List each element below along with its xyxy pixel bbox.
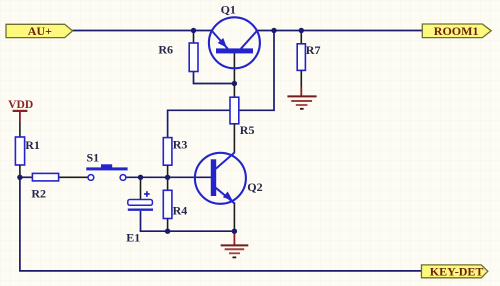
port KEY-DET — [422, 265, 488, 279]
svg-text:AU+: AU+ — [28, 24, 52, 38]
svg-text:S1: S1 — [87, 150, 100, 164]
resistor R6 — [189, 31, 198, 72]
ground below R7 — [287, 87, 316, 109]
svg-text:R3: R3 — [173, 137, 188, 151]
wire R6 bottom to Q1 base — [194, 72, 235, 84]
port ROOM1 — [422, 24, 491, 38]
wire AU+ to Q1 emitter — [73, 30, 213, 32]
svg-text:Q2: Q2 — [247, 180, 262, 194]
svg-text:R7: R7 — [306, 43, 321, 57]
ground below Q2 — [221, 231, 249, 257]
junction at R7 top — [299, 28, 304, 33]
junction at Q2 emitter/ground — [232, 229, 237, 234]
junction at R1/R2 — [17, 175, 22, 180]
port AU+ — [6, 24, 73, 38]
resistor R5 — [230, 97, 239, 152]
wire mid horizontal R1 to R2 — [20, 176, 33, 178]
svg-text:R1: R1 — [25, 138, 40, 152]
capacitor E1 — [128, 177, 153, 209]
junction at R3/R4 — [165, 175, 170, 180]
resistor R4 — [163, 177, 172, 231]
resistor R2 — [32, 173, 58, 181]
svg-text:Q1: Q1 — [221, 3, 236, 17]
junction at collector drop — [271, 28, 276, 33]
svg-text:ROOM1: ROOM1 — [434, 24, 479, 38]
junction at R6 top — [191, 28, 196, 33]
transistor Q1 (PNP) — [209, 17, 260, 68]
svg-text:E1: E1 — [126, 230, 140, 244]
resistor R3 — [163, 138, 172, 178]
svg-text:R2: R2 — [31, 187, 46, 201]
svg-text:R5: R5 — [240, 123, 255, 137]
wire left column down and bottom to KEY-DET — [20, 177, 422, 271]
junction at E1 top — [138, 175, 143, 180]
switch S1 — [86, 164, 127, 180]
wire bottom E1 to Q2 emitter/ground — [141, 211, 235, 231]
resistor R7 — [297, 31, 305, 88]
wire S1 to Q2 base — [126, 176, 211, 178]
wire Q1 base to R5 — [233, 53, 235, 97]
power port VDD — [8, 98, 33, 122]
svg-text:KEY-DET: KEY-DET — [430, 265, 484, 279]
junction at R4 bottom — [165, 229, 170, 234]
svg-text:R4: R4 — [173, 203, 188, 217]
transistor Q2 (NPN) — [195, 152, 246, 231]
wire Q1 collector to ROOM1 — [257, 30, 423, 32]
svg-text:VDD: VDD — [8, 98, 33, 111]
wire R2 to S1 — [59, 176, 88, 178]
wire collector drop to R3 top (vertical x=274) — [168, 31, 274, 138]
svg-text:R6: R6 — [158, 42, 173, 56]
resistor R1 — [15, 122, 24, 177]
junction at R6/base — [232, 81, 237, 86]
